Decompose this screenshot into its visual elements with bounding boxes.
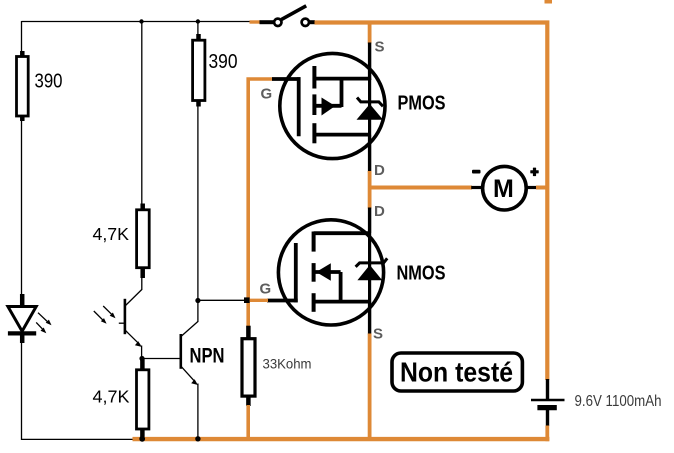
wire base link to NPN: [142, 358, 181, 360]
wire orange PMOS gate: [248, 79, 272, 298]
LED D1: [8, 294, 36, 343]
wire orange battery to bottom: [545, 426, 549, 442]
wire orange segment before switch: [250, 20, 261, 23]
resistor R5 33Kohm: [242, 326, 255, 406]
annotation box Non testé: [392, 353, 522, 391]
stray orange tick top right: [545, 0, 553, 4]
wire vertical x=198 middle: [197, 106, 199, 301]
LED light arrows: [36, 313, 51, 334]
node junction square (gate net): [244, 297, 250, 303]
label 4,7K (R3): [93, 224, 130, 244]
label S (NMOS source): [373, 326, 383, 343]
wire orange 33K bottom: [246, 405, 250, 440]
wire orange motor left: [370, 186, 472, 190]
wire orange drain link: [368, 171, 372, 209]
svg-text:M: M: [493, 175, 514, 203]
node junction B (emitter/base): [139, 356, 144, 361]
wire orange top right: [315, 23, 548, 381]
wire orange NMOS gate stub: [249, 299, 268, 302]
resistor R2 390: [193, 22, 205, 107]
svg-text:S: S: [375, 39, 385, 56]
wire gate link horizontal: [198, 299, 245, 301]
motor MOT1: [471, 166, 537, 210]
NMOS body diode: [356, 258, 388, 280]
wire orange motor right: [536, 186, 549, 190]
wire orange 33K top: [246, 297, 250, 327]
label 9.6V 1100mAh: [575, 393, 662, 410]
label PMOS: [398, 93, 446, 115]
wire orange bottom rail: [133, 437, 550, 441]
svg-text:D: D: [374, 162, 385, 179]
label NPN: [190, 345, 225, 368]
svg-text:S: S: [373, 326, 383, 343]
label S (PMOS source): [375, 39, 385, 56]
wire orange PMOS source drop: [368, 23, 372, 44]
wire vertical x=142 top: [141, 22, 143, 205]
wire orange NMOS source drop: [368, 334, 372, 441]
node junction top B (x=198): [196, 19, 200, 23]
svg-text:390: 390: [209, 51, 238, 73]
PMOS body diode: [357, 98, 384, 120]
MOSFET U1 PMOS: [272, 43, 385, 173]
label G (NMOS gate): [260, 281, 272, 298]
label 33Kohm: [263, 355, 312, 371]
svg-text:Non testé: Non testé: [400, 357, 513, 388]
svg-text:G: G: [260, 281, 272, 298]
MOSFET U2 NMOS: [267, 208, 384, 335]
svg-text:33Kohm: 33Kohm: [263, 355, 312, 371]
svg-text:D: D: [374, 203, 385, 220]
wire left vertical lower: [21, 121, 23, 296]
label D (PMOS drain): [374, 162, 385, 179]
node junction on bottom rail (R4): [139, 436, 145, 442]
wire left vertical upper: [21, 21, 23, 52]
node junction on bottom rail (NPN emitter): [195, 436, 200, 441]
phototransistor Q1: [119, 290, 142, 359]
svg-text:9.6V 1100mAh: 9.6V 1100mAh: [575, 393, 662, 410]
node junction C (collector/gate): [195, 298, 200, 303]
battery BT1: [531, 379, 565, 426]
label D (NMOS drain): [374, 203, 385, 220]
transistor Q2 NPN: [181, 301, 198, 440]
svg-text:4,7K: 4,7K: [93, 387, 130, 407]
resistor R1 390: [17, 51, 29, 121]
node junction top A (x=142): [139, 19, 143, 23]
switch SW1: [260, 6, 316, 26]
wire LED to bottom: [22, 343, 134, 440]
label 4,7K (R4): [93, 387, 130, 407]
label G (PMOS gate): [261, 86, 273, 103]
resistor R4 4,7K lower: [137, 359, 149, 439]
label NMOS: [397, 263, 446, 285]
wire top horizontal black: [22, 21, 251, 23]
resistor R3 4,7K upper: [137, 204, 150, 279]
svg-text:PMOS: PMOS: [398, 93, 446, 115]
svg-text:4,7K: 4,7K: [93, 224, 130, 244]
svg-text:NMOS: NMOS: [397, 263, 446, 285]
svg-text:G: G: [261, 86, 273, 103]
svg-text:390: 390: [35, 71, 63, 93]
label 390 (R1): [35, 71, 63, 93]
label 390 (R2): [209, 51, 238, 73]
wire resistor to phototransistor collector: [141, 278, 143, 291]
label plus: [530, 168, 538, 177]
phototransistor light arrows: [94, 306, 116, 324]
svg-text:NPN: NPN: [190, 345, 225, 368]
label minus: [472, 170, 481, 174]
